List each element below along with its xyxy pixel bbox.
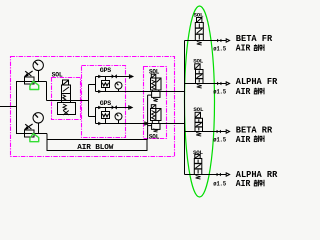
svg-text:AIR BLOW: AIR BLOW: [77, 144, 114, 152]
svg-text:GPS: GPS: [100, 100, 112, 107]
svg-text:AIR: AIR: [236, 86, 251, 97]
svg-text:AIR: AIR: [236, 178, 251, 189]
svg-text:ø1.5: ø1.5: [213, 181, 226, 188]
svg-text:AIR: AIR: [236, 134, 251, 145]
svg-text:GPS: GPS: [100, 67, 112, 74]
svg-text:ø1.5: ø1.5: [213, 89, 226, 96]
svg-text:SOL: SOL: [52, 72, 63, 79]
svg-text:SOL: SOL: [149, 134, 160, 141]
svg-text:SOL: SOL: [193, 106, 204, 113]
svg-text:AIR: AIR: [236, 43, 251, 54]
svg-text:ø1.5: ø1.5: [213, 137, 226, 144]
svg-text:SOL: SOL: [193, 149, 204, 156]
svg-text:ø1.5: ø1.5: [213, 45, 226, 52]
svg-text:SOL: SOL: [149, 69, 160, 76]
svg-text:SOL: SOL: [194, 12, 205, 19]
svg-text:SOL: SOL: [193, 58, 204, 65]
